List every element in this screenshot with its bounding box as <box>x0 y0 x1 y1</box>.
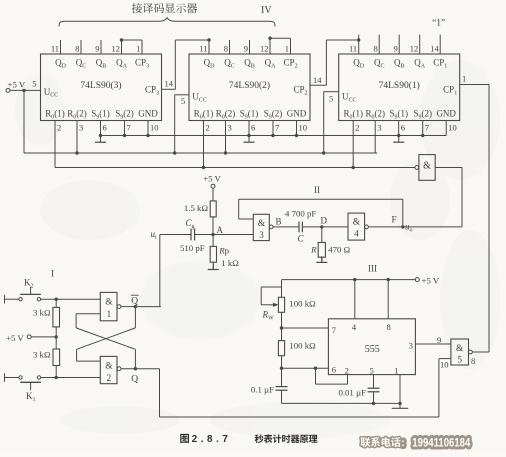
svg-text:14: 14 <box>430 44 439 54</box>
svg-text:&: & <box>353 218 361 228</box>
node pin6/pin2 branch <box>314 367 317 370</box>
wire <box>281 312 283 328</box>
svg-text:3: 3 <box>409 341 413 351</box>
wire R0(1) pin2 to reset bus <box>352 121 354 168</box>
svg-text:7: 7 <box>127 123 131 133</box>
555 timer U6 <box>328 319 415 375</box>
ground <box>212 263 214 269</box>
wire pin8 <box>387 280 389 319</box>
svg-text:1.5 kΩ: 1.5 kΩ <box>184 203 209 213</box>
wire Q output <box>121 368 160 370</box>
wire pin6 to pin2 <box>315 368 317 384</box>
svg-text:3: 3 <box>259 230 264 240</box>
wire top rail <box>282 279 416 281</box>
svg-text:74LS90(3): 74LS90(3) <box>80 80 121 91</box>
svg-text:10: 10 <box>448 123 457 133</box>
pin 1 stub <box>290 38 292 54</box>
svg-text:5: 5 <box>181 96 185 106</box>
node Qbar <box>134 305 137 308</box>
svg-text:&: & <box>258 219 266 229</box>
switch stem <box>30 382 32 390</box>
wire <box>212 262 214 269</box>
svg-text:7: 7 <box>275 123 279 133</box>
resistor Rp 1k <box>212 235 214 247</box>
svg-text:11: 11 <box>199 44 207 54</box>
wire +5V down to供电 bus <box>23 90 25 153</box>
svg-text:14: 14 <box>165 79 174 89</box>
svg-text:12: 12 <box>410 44 419 54</box>
svg-text:II: II <box>314 185 320 195</box>
wire Q to gate5 input 10 <box>159 369 161 417</box>
svg-text:C: C <box>297 234 304 244</box>
svg-text:14: 14 <box>313 75 322 85</box>
svg-text:&: & <box>105 362 113 372</box>
node A <box>211 233 214 236</box>
74LS90(1) counter U1 <box>339 54 460 121</box>
wire to 555 pin6 <box>282 367 329 369</box>
pin 12 stub <box>121 40 123 54</box>
svg-text:I: I <box>51 270 54 280</box>
wire <box>212 188 214 201</box>
svg-text:9: 9 <box>244 44 248 54</box>
NAND gate 1 <box>100 292 117 320</box>
wire <box>321 257 323 262</box>
svg-text:2: 2 <box>57 123 61 133</box>
svg-text::: : <box>401 438 404 449</box>
svg-text:Q: Q <box>131 375 138 385</box>
capacitor 0.1uF <box>281 368 283 386</box>
svg-text:GND: GND <box>138 109 158 119</box>
svg-text:Rp: Rp <box>218 246 229 256</box>
svg-text:D: D <box>321 216 328 226</box>
overline Qbar <box>131 294 139 296</box>
wire pin to ground bus <box>100 121 102 136</box>
svg-text:1: 1 <box>107 309 112 319</box>
wire pin to ground bus <box>147 121 149 136</box>
svg-text:B: B <box>276 217 282 227</box>
svg-text:5: 5 <box>329 94 333 104</box>
cross-coupling wires <box>134 307 136 328</box>
svg-text:2: 2 <box>206 123 210 133</box>
svg-text:12: 12 <box>260 44 269 54</box>
svg-text:+5 V: +5 V <box>8 80 26 90</box>
svg-text:19941106184: 19941106184 <box>412 436 470 450</box>
switch bar <box>20 381 41 383</box>
svg-text:4: 4 <box>354 229 359 239</box>
wire C to gate4 <box>302 226 348 228</box>
pin 1 stub <box>141 40 143 54</box>
svg-text:8: 8 <box>75 44 79 54</box>
ground <box>248 136 250 142</box>
svg-text:10: 10 <box>150 123 159 133</box>
svg-text:9: 9 <box>437 335 441 345</box>
label 接译码显示器 <box>132 3 142 13</box>
pin 11 stub <box>60 40 62 54</box>
wire R0(2) pin3 to +5V bus <box>374 121 376 154</box>
wire pin to ground bus <box>272 121 274 136</box>
svg-text:+5 V: +5 V <box>6 333 24 343</box>
node D <box>320 225 323 228</box>
wire feedback riser left <box>238 199 240 219</box>
wire riser uo to reset gate <box>461 168 463 227</box>
wire ground bus <box>101 135 447 137</box>
wire feedback riser right <box>402 199 404 227</box>
wire R0(1) pin2 to reset bus <box>203 121 205 168</box>
74LS90(2) counter U2 <box>189 54 310 121</box>
pin 14 stub <box>439 35 441 54</box>
svg-text:1: 1 <box>462 74 466 84</box>
svg-text:12: 12 <box>112 44 121 54</box>
svg-text:3: 3 <box>79 123 83 133</box>
svg-text:100 kΩ: 100 kΩ <box>289 341 316 351</box>
bottom rail <box>282 402 401 404</box>
wire K1 to gate2 <box>41 377 101 379</box>
svg-text:9: 9 <box>393 44 397 54</box>
wire +5V bus <box>24 152 377 154</box>
svg-text:9: 9 <box>95 44 99 54</box>
svg-text:3 kΩ: 3 kΩ <box>33 308 51 318</box>
wire QA to CP bracket <box>268 37 271 40</box>
wiper wire top <box>261 286 281 288</box>
svg-text:IV: IV <box>261 5 272 16</box>
wire CP2 clock link U2<-U1.QD <box>310 84 326 86</box>
wire F output <box>368 226 462 228</box>
svg-text:1 kΩ: 1 kΩ <box>221 258 239 268</box>
svg-text:GND: GND <box>436 109 456 119</box>
NAND gate 4 <box>348 213 365 240</box>
svg-text:10: 10 <box>299 123 308 133</box>
svg-text:3: 3 <box>228 123 232 133</box>
wiper arm <box>261 304 275 306</box>
capacitor Cg 510pF <box>190 229 192 241</box>
svg-text:0.1 µF: 0.1 µF <box>251 385 274 395</box>
svg-text:510 pF: 510 pF <box>180 243 205 253</box>
pin 11 stub <box>358 35 360 54</box>
node F / uo <box>401 225 404 228</box>
svg-text:GND: GND <box>287 109 307 119</box>
svg-text:0.01 µF: 0.01 µF <box>338 388 366 398</box>
wire +5V to U3 UCC <box>10 89 41 91</box>
wire reset bus <box>55 167 417 169</box>
wire pin to ground bus <box>445 121 447 136</box>
pin 9 stub <box>249 40 251 54</box>
wire R0(2) pin3 to +5V bus <box>225 121 227 154</box>
svg-text:3: 3 <box>377 123 381 133</box>
wire gate input from uo <box>435 167 462 169</box>
svg-text:&: & <box>105 298 113 308</box>
svg-text:11: 11 <box>349 44 357 54</box>
svg-text:2: 2 <box>107 373 112 383</box>
svg-text:A: A <box>217 225 224 235</box>
svg-text:11: 11 <box>51 44 59 54</box>
svg-text:4 700 pF: 4 700 pF <box>285 209 316 219</box>
NAND gate reset driver <box>419 155 435 181</box>
wire 555 pin3 to gate5 <box>415 343 451 345</box>
svg-text:1: 1 <box>136 44 140 54</box>
svg-text:III: III <box>368 264 377 274</box>
svg-text:8: 8 <box>471 356 475 366</box>
ground <box>100 136 102 142</box>
svg-text:6: 6 <box>401 123 405 133</box>
wire gate5 output <box>472 351 489 353</box>
svg-text:6: 6 <box>103 123 107 133</box>
contact badge 联系电话:19941106184 <box>361 437 371 447</box>
svg-text:6: 6 <box>251 123 255 133</box>
svg-text:1: 1 <box>394 366 398 376</box>
wire ui to Cg <box>160 234 191 236</box>
wire pin to ground bus <box>248 121 250 136</box>
wire R0(2) pin3 to +5V bus <box>76 121 78 154</box>
svg-text:1: 1 <box>285 44 289 54</box>
pin 11 stub <box>208 40 210 54</box>
svg-text:5: 5 <box>32 78 36 88</box>
wire QA to CP bracket <box>120 38 123 41</box>
brace to decoders <box>59 18 275 27</box>
svg-text:3 kΩ: 3 kΩ <box>33 350 51 360</box>
pin 8 stub <box>229 40 231 54</box>
svg-text:5: 5 <box>370 366 374 376</box>
wire to 555 pin7 <box>282 327 329 329</box>
svg-text:7: 7 <box>425 123 429 133</box>
svg-text:Q: Q <box>131 297 138 307</box>
svg-text:F: F <box>392 215 397 225</box>
svg-text:&: & <box>423 161 431 172</box>
potentiometer Rw 100k <box>281 280 283 298</box>
ground <box>398 136 400 142</box>
svg-text:10: 10 <box>440 360 449 370</box>
svg-text:8: 8 <box>373 44 377 54</box>
pin 9 stub <box>100 40 102 54</box>
wire ui riser from Qbar <box>159 235 161 307</box>
resistor 1.5k <box>210 201 216 217</box>
wire pin to ground bus <box>296 121 298 136</box>
capacitor C 4700pF <box>298 222 300 233</box>
capacitor 0.01uF <box>373 375 375 389</box>
svg-text:2: 2 <box>355 123 359 133</box>
wire pin to ground bus <box>422 121 424 136</box>
resistor R 470 <box>321 227 323 243</box>
resistor 100k lower <box>281 328 283 341</box>
resistor 3k lower <box>55 337 57 349</box>
pin 12 stub <box>269 38 271 54</box>
svg-text:6: 6 <box>332 365 336 375</box>
wire R0(1) pin2 to reset bus <box>54 121 56 168</box>
svg-text:5: 5 <box>457 355 462 365</box>
resistor 3k upper <box>55 299 57 307</box>
svg-text:2.8.7: 2.8.7 <box>192 434 232 445</box>
pin 8 stub <box>80 40 82 54</box>
555 pin1 ground <box>399 375 401 404</box>
wire to node A <box>212 217 214 235</box>
wire pin to ground bus <box>124 121 126 136</box>
wire CP1 from gate5 output <box>460 84 489 86</box>
wire A to gate3 input <box>213 234 253 236</box>
switch stem <box>30 287 32 295</box>
switch bar <box>20 293 41 295</box>
svg-text:8: 8 <box>224 44 228 54</box>
node +5V tap <box>22 89 25 92</box>
svg-text:100 kΩ: 100 kΩ <box>289 299 316 309</box>
wire Qbar output <box>121 306 161 308</box>
wire pin to ground bus <box>398 121 400 136</box>
pin 8 stub <box>378 35 380 54</box>
caption 图2.8.7 <box>180 434 189 443</box>
NAND gate 5 <box>451 339 469 365</box>
wire feedback to gate3 <box>239 218 254 220</box>
wire pin4 <box>354 280 356 319</box>
svg-text:&: & <box>456 344 464 354</box>
NAND gate 2 <box>100 356 117 383</box>
wire Cg to A <box>195 234 214 236</box>
pin 12 stub <box>419 35 421 54</box>
svg-text:555: 555 <box>365 344 380 355</box>
svg-text:R: R <box>310 245 317 255</box>
wire K2 to gate1 <box>41 298 101 300</box>
svg-text:2: 2 <box>345 366 349 376</box>
svg-text:7: 7 <box>332 325 336 335</box>
NAND gate 3 <box>253 214 269 240</box>
pin 9 stub <box>398 35 400 54</box>
ground <box>321 256 323 262</box>
wire CP3 clock link U3<-U2.QD <box>162 88 176 90</box>
svg-text:+5 V: +5 V <box>422 276 440 286</box>
node Q <box>134 367 137 370</box>
74LS90(3) counter U3 <box>41 54 162 121</box>
svg-text:74LS90(2): 74LS90(2) <box>229 80 270 91</box>
node pin6 <box>280 367 283 370</box>
node pin7 <box>280 326 283 329</box>
wire B <box>273 226 299 228</box>
wire UCC riser U1 <box>323 92 325 153</box>
wire feedback top <box>239 198 403 200</box>
svg-text:8: 8 <box>386 322 390 332</box>
terminal tick <box>4 373 6 382</box>
svg-text:+5 V: +5 V <box>203 174 221 184</box>
terminal tick <box>4 295 6 304</box>
wire UCC riser U2 <box>174 95 176 153</box>
svg-text:“1”: “1” <box>432 19 445 29</box>
svg-text:470 Ω: 470 Ω <box>328 245 350 255</box>
svg-text:74LS90(1): 74LS90(1) <box>379 80 420 91</box>
